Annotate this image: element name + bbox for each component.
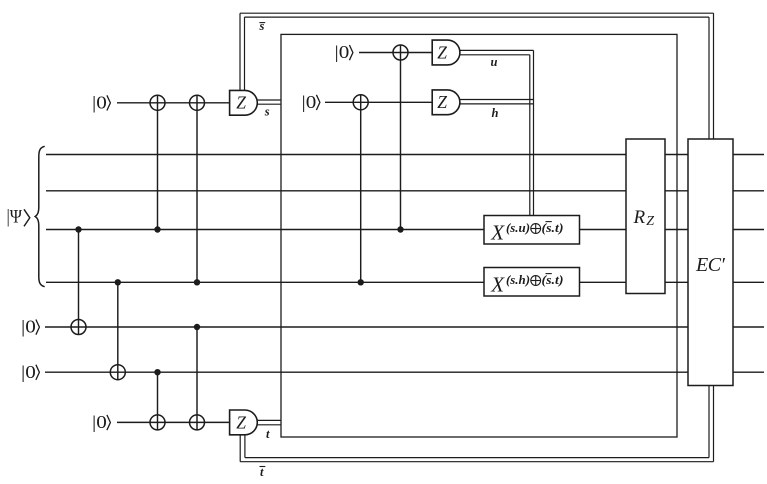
wire cnot vertical ctrl w4 to ancilla B: [117, 282, 119, 379]
classical wire t horizontal pair: [256, 419, 281, 421]
wire data 4: [46, 281, 764, 283]
gate X2 box: [484, 268, 580, 297]
brace for psi input: [35, 146, 45, 286]
target circle 6: [190, 415, 205, 430]
label RZ: [633, 207, 655, 229]
svg-text:t: t: [260, 465, 264, 479]
classical wire u horizontal pair: [457, 49, 534, 51]
svg-text:|0: |0: [92, 412, 107, 432]
control dot w3 x400: [397, 226, 403, 232]
wire data 3: [46, 229, 764, 231]
control dot w4 x118: [115, 279, 121, 285]
label t-bar: [260, 465, 266, 479]
svg-text:s: s: [264, 104, 270, 118]
svg-text:s: s: [259, 19, 265, 33]
svg-text:Z: Z: [646, 214, 654, 229]
svg-text:h: h: [492, 106, 499, 120]
classical wire u vertical pair down to X box 1: [533, 50, 535, 215]
wire ancilla B: [45, 371, 764, 373]
control dot w3 x78: [75, 226, 81, 232]
label ket0 ancilla B: [21, 362, 39, 382]
control dot w4 x197: [194, 279, 200, 285]
classical wire s-bar vertical pair into EC top: [713, 13, 715, 140]
label ket0 ancilla A: [21, 317, 39, 337]
svg-text:(s.h): (s.h): [506, 273, 530, 287]
svg-text:|0: |0: [302, 92, 317, 112]
wire inner ancilla h: [325, 101, 433, 103]
gate EC box: [688, 139, 733, 386]
wire cnot vertical ctrl w3 to top ancilla: [157, 96, 159, 230]
target circle 4: [110, 365, 125, 380]
wire cnot vertical ctrl ancilla B to bottom ancilla: [157, 372, 159, 430]
svg-text:X: X: [490, 220, 505, 244]
classical wire t-bar vertical pair into EC bottom: [713, 386, 715, 462]
svg-text:|0: |0: [335, 42, 350, 62]
label ket0 inner h: [302, 92, 320, 112]
control dot w4 x361: [358, 279, 364, 285]
svg-text:t: t: [266, 427, 270, 441]
svg-text:Z: Z: [437, 42, 447, 62]
classical wire h horizontal pair: [457, 99, 534, 101]
cnot targets: [71, 45, 408, 430]
measurement M2 (u): [432, 40, 460, 65]
svg-text:|Ψ: |Ψ: [7, 207, 23, 227]
classical wire s-bar horizontal pair: [240, 12, 714, 14]
gate RZ box: [626, 139, 665, 294]
svg-text:Z: Z: [236, 93, 246, 113]
classical wire s horizontal pair: [256, 99, 281, 101]
wire cnot vertical ctrl w3 to inner ancilla u: [400, 45, 402, 229]
control dot w3 x157: [154, 226, 160, 232]
classical wire t-bar vertical pair from M4 bottom: [239, 435, 241, 462]
svg-text:(s.t): (s.t): [542, 221, 564, 235]
measurement M1 (s): [230, 90, 258, 115]
svg-text:R: R: [633, 207, 646, 228]
wire data 2: [46, 190, 764, 192]
wire cnot vertical ctrl w4 to inner ancilla h: [360, 95, 362, 282]
svg-text:X: X: [490, 272, 505, 296]
measurement M4 (t): [230, 410, 258, 435]
label ket0 bottom ancilla: [92, 412, 110, 432]
target circle 8: [353, 95, 368, 110]
label X2 with superscript: [490, 272, 563, 296]
label ket0 top ancilla: [92, 93, 110, 113]
wire cnot vertical ctrl ancilla A to bottom ancilla: [196, 327, 198, 430]
label X1 with superscript: [490, 220, 563, 244]
target circle 2: [190, 95, 205, 110]
svg-text:Z: Z: [236, 412, 246, 432]
label ket0 inner u: [335, 42, 353, 62]
control dot ancilla B x157: [154, 369, 160, 375]
target circle 7: [393, 45, 408, 60]
svg-text:EC′: EC′: [695, 254, 726, 276]
wire cnot vertical ctrl w3 to ancilla A: [78, 230, 80, 335]
svg-text:u: u: [491, 55, 498, 69]
label s-bar: [259, 19, 266, 33]
svg-text:(s.u): (s.u): [506, 221, 530, 235]
classical wire s-bar vertical pair from M1 top: [239, 13, 241, 91]
control dots: [75, 226, 403, 375]
classical wire t-bar horizontal pair: [240, 461, 713, 463]
wire top ancilla s: [117, 102, 230, 104]
target circle 3: [71, 320, 86, 335]
svg-text:|0: |0: [92, 93, 107, 113]
target circle 5: [150, 415, 165, 430]
wire cnot vertical ctrl w4 to top ancilla: [196, 96, 198, 283]
control dot ancilla A x197: [194, 324, 200, 330]
svg-text:|0: |0: [21, 317, 36, 337]
inner dashed-free enclosing box: [281, 34, 677, 437]
svg-text:Z: Z: [437, 92, 447, 112]
wire data 1: [46, 154, 764, 156]
svg-text:(s.t): (s.t): [542, 273, 564, 287]
target circle 1: [150, 95, 165, 110]
gate X1 box: [484, 216, 580, 245]
measurement M3 (h): [432, 90, 460, 115]
label psi ket: [7, 207, 30, 227]
wire ancilla A: [45, 326, 764, 328]
wire inner ancilla u: [359, 52, 433, 54]
wire bottom ancilla t: [117, 421, 230, 423]
svg-text:|0: |0: [21, 362, 36, 382]
